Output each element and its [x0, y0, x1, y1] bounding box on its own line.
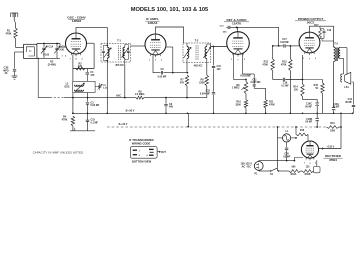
svg-text:100: 100	[217, 68, 222, 71]
svg-text:12BE6: 12BE6	[72, 19, 82, 23]
svg-text:30 MF: 30 MF	[333, 107, 340, 109]
svg-text:50 MF: 50 MF	[305, 121, 312, 124]
svg-text:150: 150	[294, 88, 299, 91]
T1 secondary trimmer C7	[125, 44, 129, 46]
wire antenna to loop	[15, 39, 17, 48]
wire loop bottom line	[37, 57, 60, 59]
svg-text:1 MEG: 1 MEG	[232, 87, 240, 90]
tube V2 12BA6 IF AMPL	[145, 34, 166, 55]
wire T2 secondary to V3	[211, 46, 227, 48]
wire V1 cathode down	[72, 55, 74, 82]
oscillator coil L2	[73, 81, 95, 92]
resistor R14 150	[301, 84, 304, 97]
svg-text:0.1 MF: 0.1 MF	[281, 84, 289, 87]
wire main B- bus	[73, 112, 353, 114]
resistor R1 470K	[15, 23, 17, 28]
svg-text:2: 2	[65, 56, 66, 58]
power plug P1	[254, 162, 263, 171]
wire loop to C1B	[15, 51, 24, 53]
loop antenna L1	[24, 44, 37, 58]
antenna	[11, 12, 18, 14]
svg-text:50 MF: 50 MF	[305, 105, 312, 108]
resistor R10 3300	[244, 100, 247, 108]
resistor R17 and capacitor C19 snubber	[319, 26, 321, 29]
svg-text:LS1: LS1	[344, 86, 349, 89]
svg-text:WIRING CODE: WIRING CODE	[132, 141, 151, 145]
T2 core	[195, 45, 197, 60]
svg-text:C16A: C16A	[333, 103, 339, 106]
svg-text:1: 1	[303, 58, 304, 60]
svg-text:T-3: T-3	[334, 42, 338, 45]
svg-text:.05 MF: .05 MF	[283, 155, 291, 158]
svg-text:455 KC: 455 KC	[194, 63, 203, 67]
svg-text:2: 2	[139, 155, 140, 157]
electrolytic C16C 50MF	[303, 99, 318, 101]
svg-text:R16: R16	[330, 123, 335, 125]
heater resistor R19B	[302, 170, 314, 173]
svg-text:R19A: R19A	[291, 173, 297, 176]
svg-text:0.005 MF: 0.005 MF	[250, 81, 261, 84]
wire T3 primary bottom to bus	[333, 62, 335, 108]
resistor R11 470K	[265, 88, 267, 99]
IF transformer T1 455KC	[101, 43, 131, 62]
svg-text:1: 1	[231, 59, 232, 61]
svg-text:(2-40K): (2-40K)	[48, 64, 56, 67]
svg-text:7: 7	[237, 60, 238, 62]
svg-text:2: 2	[244, 59, 245, 61]
svg-text:1: 1	[139, 150, 140, 152]
tube V3 12AT6 DET and AUDIO	[227, 32, 250, 55]
wire plug top to rectifier pin	[258, 160, 260, 163]
T1 secondary coil	[123, 47, 125, 58]
capacitor C9 0.05MF	[160, 71, 162, 74]
wire AVC bus	[73, 97, 136, 99]
wire T1 primary bottom to bus	[106, 61, 108, 114]
resistor R8 220K	[206, 63, 208, 76]
svg-text:0.02 MF: 0.02 MF	[280, 41, 289, 44]
svg-text:3: 3	[310, 163, 311, 165]
capacitor C8 400	[165, 97, 167, 99]
T1 core	[118, 46, 120, 61]
capacitor C13 250 grid stub	[226, 26, 227, 28]
T2 secondary coil	[205, 47, 207, 59]
svg-text:0.05 MF: 0.05 MF	[158, 76, 167, 79]
capacitor C4	[86, 69, 88, 73]
svg-text:C19: C19	[327, 30, 332, 32]
svg-text:BOTTOM VIEW: BOTTOM VIEW	[132, 159, 152, 163]
svg-text:T-2: T-2	[195, 38, 199, 42]
wire V1 plate to T1	[76, 28, 107, 44]
wire V2 plate to T2	[156, 27, 184, 43]
ground	[14, 71, 16, 76]
pilot lamp I1	[283, 134, 291, 142]
tube V5 35W4 RECTIFIER	[301, 141, 318, 158]
svg-text:B+ 90 V: B+ 90 V	[119, 123, 128, 126]
capacitor C17 0.02MF coupling	[278, 45, 280, 47]
wire V1 screen to osc section	[87, 42, 95, 44]
wire V3 diode pins down	[233, 54, 235, 80]
switch S1	[258, 169, 260, 172]
trimmer C5 3-30	[95, 86, 100, 88]
capacitor C13 output 30MF	[353, 108, 355, 114]
svg-text:0.004 MF: 0.004 MF	[200, 92, 211, 95]
wire rectifier output +115V	[319, 148, 341, 150]
svg-text:470K: 470K	[6, 33, 12, 36]
svg-text:7: 7	[155, 60, 156, 62]
svg-text:2.2 MEG.: 2.2 MEG.	[135, 93, 145, 96]
tube V4 50C5 POWER OUTPUT	[299, 32, 320, 53]
svg-text:470K: 470K	[269, 103, 275, 106]
wire bus connector	[187, 113, 189, 126]
wire B+ 90V line	[107, 126, 327, 128]
svg-text:7: 7	[69, 59, 70, 61]
resistor R16 1000 in B+ line	[327, 126, 340, 129]
svg-text:22K: 22K	[78, 65, 83, 68]
svg-text:R19B: R19B	[305, 174, 311, 176]
resistor R18 in pilot feed	[295, 127, 297, 134]
speaker LS1	[341, 74, 342, 82]
svg-text:AVC: AVC	[116, 94, 121, 97]
electrolytic C16B 50MF	[316, 113, 318, 118]
svg-text:455 KC: 455 KC	[115, 63, 124, 67]
ballast connector	[314, 167, 321, 173]
svg-text:470K: 470K	[62, 118, 68, 121]
wire V4 plate to T3	[310, 26, 334, 47]
capacitor C15 0.1MF	[86, 119, 89, 121]
svg-text:7: 7	[304, 163, 305, 165]
svg-text:C1A: C1A	[49, 46, 54, 49]
capacitor C20 0.05MF	[286, 142, 288, 147]
svg-text:5-165: 5-165	[43, 54, 50, 57]
wire V3 plate line to C17	[238, 27, 279, 46]
heater resistor R19A	[289, 170, 301, 173]
svg-text:3-30: 3-30	[59, 49, 64, 52]
wire L2 bottom to R4	[72, 93, 74, 114]
tube V1 12BE6 OSC-CONV	[66, 33, 87, 54]
svg-text:47K: 47K	[180, 81, 185, 84]
svg-text:CAPACITY IN MMF UNLESS NOTED: CAPACITY IN MMF UNLESS NOTED	[33, 151, 84, 155]
wire B+ line verticals bottom right	[277, 127, 279, 171]
svg-text:3300: 3300	[235, 103, 241, 106]
svg-text:470: 470	[90, 74, 95, 77]
T1 primary trimmer C6	[104, 44, 108, 46]
capacitor C10 100	[213, 47, 215, 66]
svg-text:0.1 MF: 0.1 MF	[91, 121, 99, 124]
svg-text:2: 2	[315, 58, 316, 60]
resistor R7 47K	[186, 63, 188, 73]
T2 primary coil	[187, 47, 189, 59]
svg-text:R17: R17	[314, 25, 319, 27]
resistor R12 470K	[272, 46, 274, 59]
svg-text:50C5: 50C5	[307, 21, 315, 25]
svg-text:1000: 1000	[330, 131, 336, 133]
svg-text:VOLUME: VOLUME	[240, 74, 251, 77]
svg-text:OUT: OUT	[161, 151, 167, 154]
svg-text:470K: 470K	[262, 63, 268, 66]
wire to V1 grid	[59, 44, 61, 48]
svg-text:220K: 220K	[199, 81, 205, 84]
svg-text:2: 2	[161, 60, 162, 62]
svg-text:8: 8	[75, 59, 76, 61]
wire V2 screen stub	[166, 46, 173, 48]
wiring code OUT arrow	[157, 151, 160, 153]
variable capacitor C1A tuning	[43, 43, 45, 45]
svg-text:T-1: T-1	[117, 39, 121, 43]
resistor R6 2.2 MEG in AVC bus	[136, 96, 144, 99]
capacitor C18 0.1MF	[273, 79, 283, 81]
signal arrow on V3 plate line	[236, 26, 239, 28]
svg-text:400: 400	[169, 106, 174, 109]
svg-text:35W4: 35W4	[329, 158, 337, 162]
capacitor C1B	[13, 69, 16, 71]
svg-text:AC - DC: AC - DC	[242, 166, 252, 169]
capacitor C3 0.03MF	[87, 97, 89, 99]
wire V2 cathode down	[152, 56, 154, 73]
svg-text:+115 V: +115 V	[327, 145, 335, 148]
wire T1 secondary to V2 grid	[131, 45, 146, 47]
T2 secondary trimmer	[207, 43, 211, 45]
svg-text:0.03 MF: 0.03 MF	[91, 104, 100, 107]
svg-text:B+ 90 V: B+ 90 V	[126, 110, 135, 113]
resistor R13 470K grid leak	[290, 45, 292, 47]
wire ground return line	[70, 130, 95, 132]
wire loop return to AVC	[37, 58, 39, 97]
wire T3 secondary to speaker	[340, 47, 347, 49]
svg-text:OSC: OSC	[64, 85, 69, 88]
svg-text:MODELS 100, 101, 103 & 105: MODELS 100, 101, 103 & 105	[131, 7, 208, 13]
svg-text:470K: 470K	[281, 63, 287, 66]
resistor R15 56	[303, 79, 323, 81]
IF transformer T2 455KC	[183, 43, 211, 63]
T1 primary coil	[106, 44, 108, 46]
electrolytic C16A 30MF	[332, 107, 336, 109]
wire loop top line	[36, 43, 38, 46]
variable capacitor C2 trimmer	[56, 43, 58, 45]
wire V4 cathode to R14	[302, 55, 304, 80]
wire L2 to C3 column	[87, 93, 89, 102]
svg-text:5: 5	[315, 163, 316, 165]
capacitor C12 0.004MF	[212, 92, 215, 94]
resistor R2 22K	[76, 67, 86, 70]
resistor R4 470K	[72, 112, 74, 114]
svg-text:1: 1	[149, 60, 150, 62]
svg-text:R18: R18	[300, 130, 305, 132]
svg-text:1: 1	[61, 56, 62, 58]
svg-text:7: 7	[309, 59, 310, 61]
svg-text:2: 2	[81, 59, 82, 61]
svg-text:30 MF: 30 MF	[345, 101, 352, 104]
